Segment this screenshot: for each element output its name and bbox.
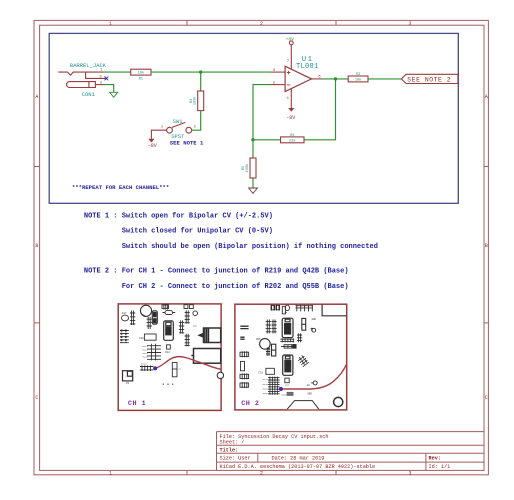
- svg-text:A: A: [35, 94, 38, 100]
- switch SW1 SPST: [167, 118, 192, 140]
- svg-text:2: 2: [260, 21, 263, 27]
- left column marks: [240, 326, 248, 328]
- pin 6 of U1: [312, 78, 323, 80]
- wire R2 to switch: [192, 111, 201, 131]
- svg-text:Q56: Q56: [256, 338, 261, 341]
- junction node A: [199, 70, 202, 73]
- pad cluster left: [122, 330, 126, 344]
- pin 2 of U1: [271, 84, 285, 86]
- svg-text:A: A: [485, 94, 488, 100]
- ladder below it: [297, 333, 302, 342]
- svg-text:R2: R2: [190, 99, 194, 103]
- resistor ladder: [130, 311, 135, 326]
- sheet box: [49, 33, 458, 203]
- svg-text:B: B: [485, 243, 488, 249]
- trace CH1: [155, 357, 221, 370]
- ground GND at CON1: [110, 92, 118, 97]
- svg-text:GND: GND: [193, 325, 198, 328]
- power -8V at U1 pin4: [286, 108, 295, 121]
- svg-text:R115: R115: [142, 355, 148, 358]
- svg-text:K17: K17: [122, 312, 127, 315]
- svg-text:U10: U10: [166, 331, 172, 334]
- svg-text:B: B: [35, 243, 38, 249]
- PCB photo CH2 board outline: [235, 304, 347, 410]
- svg-text:Title:: Title:: [220, 448, 239, 454]
- svg-text:SW1: SW1: [173, 118, 184, 125]
- svg-text:Id: 1/1: Id: 1/1: [429, 464, 451, 470]
- SCHEMATIC: [58, 36, 458, 193]
- wire R4 to node C: [253, 139, 281, 141]
- IC U15: [282, 318, 293, 337]
- svg-text:CH 2: CH 2: [241, 400, 259, 408]
- svg-text:R5: R5: [242, 166, 246, 170]
- oval ring: [285, 305, 289, 311]
- junction dot CH1: [153, 366, 157, 370]
- svg-text:CON1: CON1: [82, 91, 96, 98]
- comb ladder: [295, 305, 313, 311]
- capacitor C26: [144, 334, 156, 340]
- power jack footprint: [199, 328, 221, 343]
- svg-text:R1: R1: [139, 78, 143, 82]
- svg-text:-8V: -8V: [286, 115, 295, 121]
- pin 3 of U1: [271, 71, 285, 73]
- svg-text:-8V: -8V: [305, 384, 310, 387]
- svg-text:+8V: +8V: [286, 36, 295, 42]
- svg-text:10k: 10k: [138, 71, 144, 76]
- svg-text:Date: 28 mar 2019: Date: 28 mar 2019: [272, 455, 325, 461]
- svg-text:C: C: [485, 395, 488, 401]
- wire node C down to R5: [252, 140, 254, 158]
- junction node B at output: [334, 77, 337, 80]
- svg-text:Rev:: Rev:: [429, 455, 441, 461]
- svg-text:P2: P2: [126, 382, 130, 385]
- trace CH2: [281, 363, 347, 389]
- svg-text:R147: R147: [263, 378, 269, 381]
- wire U1 output to R3: [322, 78, 348, 80]
- transistor Q: [260, 339, 271, 350]
- svg-text:NOTE 1 : Switch open for Bipol: NOTE 1 : Switch open for Bipolar CV (+/-…: [84, 213, 273, 221]
- svg-text:3: 3: [408, 21, 411, 27]
- bottom trapezoid: [287, 401, 319, 410]
- resistor R1: [131, 69, 151, 81]
- pad circle D: [312, 328, 316, 332]
- electrolytic cap: [152, 311, 157, 324]
- small pads top: [184, 305, 188, 309]
- wire CON1 pin2 to ground: [95, 84, 103, 86]
- svg-text:1: 1: [109, 470, 112, 476]
- 2-cell resistor below Q: [272, 344, 276, 356]
- PCB CH2: [235, 304, 347, 410]
- svg-text:NOTE 2 : For CH 1 - Connect to: NOTE 2 : For CH 1 - Connect to junction …: [84, 267, 349, 275]
- capacitor K17: [122, 315, 129, 321]
- pad circle on edge: [217, 372, 223, 378]
- wire output down to feedback: [304, 79, 336, 140]
- svg-text:KiCad E.D.A. eeschema (2013-0: KiCad E.D.A. eeschema (2013-07-07 BZR 40…: [220, 464, 376, 470]
- svg-text:SEE NOTE 2: SEE NOTE 2: [407, 76, 451, 83]
- wire node C to U1 pin2: [253, 85, 271, 140]
- top row parts: [271, 305, 280, 311]
- wire R5 to ground: [252, 178, 254, 188]
- svg-text:C26: C26: [139, 337, 144, 340]
- svg-text:2: 2: [260, 470, 263, 476]
- wire node A down to R2: [200, 72, 202, 91]
- svg-text:R206: R206: [282, 393, 288, 396]
- svg-text:For CH 2 - Connect to junction: For CH 2 - Connect to junction of R202 a…: [122, 283, 349, 291]
- vertical ladders left of U15: [266, 320, 271, 334]
- wire CON1 pin1 to R1: [103, 71, 131, 73]
- svg-text:C: C: [35, 395, 38, 401]
- resistor ladder: [147, 317, 152, 329]
- small ladder top: [162, 304, 169, 309]
- ladder under trace: [286, 392, 293, 396]
- op-amp U1 TL081: [285, 56, 318, 92]
- resistor ladders right: [185, 310, 190, 323]
- svg-text:R113: R113: [141, 363, 147, 366]
- svg-text:U16: U16: [285, 366, 291, 369]
- capacitor C31: [266, 368, 275, 374]
- dots: [163, 384, 164, 385]
- power -8V at SW1: [148, 139, 157, 149]
- svg-text:R204: R204: [263, 387, 269, 390]
- svg-text:***REPEAT FOR EACH CHANNEL***: ***REPEAT FOR EACH CHANNEL***: [72, 184, 169, 191]
- diode D12: [167, 345, 171, 349]
- axial resistor: [163, 311, 176, 315]
- svg-text:C31: C31: [258, 371, 263, 374]
- svg-text:R202: R202: [263, 392, 269, 395]
- power +8V at U1 pin7: [286, 36, 295, 45]
- svg-text:R4: R4: [290, 134, 294, 138]
- svg-text:CH 1: CH 1: [128, 400, 146, 408]
- resistor R113: [140, 365, 154, 371]
- IC U10: [164, 321, 174, 340]
- resistor R3: [348, 73, 368, 82]
- svg-text:GND: GND: [308, 393, 313, 396]
- connector P2: [123, 371, 133, 381]
- NOTES: [72, 184, 378, 291]
- wire R3 to label: [368, 78, 401, 80]
- TITLE BLOCK: [217, 432, 485, 471]
- transistor can: [140, 305, 151, 316]
- global label SEE NOTE 2: [401, 74, 458, 83]
- connector CON1 barrel jack: [58, 62, 107, 98]
- svg-text:10k: 10k: [355, 77, 361, 82]
- PCB photo CH1 board outline: [118, 304, 221, 411]
- pad circle: [193, 311, 198, 316]
- no-connect X on pin 3: [105, 77, 109, 81]
- relay footprint: [191, 349, 220, 364]
- resistor cluster: [147, 344, 161, 361]
- ground GND below R5: [249, 188, 258, 193]
- ladder under U15: [280, 338, 294, 342]
- svg-text:1: 1: [109, 21, 112, 27]
- IC U16: [283, 355, 293, 375]
- diagonal ladders right of U16: [298, 355, 306, 362]
- wire SW1 pin1 to -8V: [151, 130, 166, 139]
- svg-text:-8V: -8V: [148, 143, 157, 149]
- resistor R2: [190, 91, 204, 111]
- mount hole: [334, 397, 343, 406]
- resistor right of U15: [302, 318, 306, 330]
- svg-text:W20: W20: [285, 384, 290, 387]
- via -8V: [313, 381, 317, 385]
- svg-text:TL081: TL081: [296, 63, 319, 71]
- svg-text:Size: User: Size: User: [220, 455, 251, 461]
- junction node C: [251, 138, 254, 141]
- svg-text:GND: GND: [312, 318, 317, 321]
- diode under U15: [281, 345, 296, 349]
- svg-text:Sheet: /: Sheet: /: [220, 440, 245, 446]
- svg-text:22k: 22k: [289, 138, 295, 143]
- junction dot CH2: [279, 387, 283, 391]
- svg-text:Switch closed for Unipolar CV: Switch closed for Unipolar CV (0-5V): [122, 228, 273, 236]
- jack cutout: [322, 305, 346, 316]
- svg-text:SEE NOTE 1: SEE NOTE 1: [170, 140, 204, 147]
- svg-text:R3: R3: [356, 73, 360, 77]
- svg-text:R146: R146: [263, 383, 269, 386]
- bottom-left resistor stack: [268, 377, 280, 381]
- svg-text:Switch should be open (Bipolar: Switch should be open (Bipolar position)…: [122, 243, 378, 251]
- svg-text:3: 3: [408, 470, 411, 476]
- svg-text:U15: U15: [284, 329, 290, 332]
- svg-text:D12: D12: [165, 351, 170, 354]
- resistor K2: [172, 363, 177, 377]
- resistor R5: [242, 158, 256, 178]
- wire R1 to op-amp pin3: [151, 71, 271, 73]
- small rect below U16: [285, 378, 289, 383]
- PCB CH1: [118, 304, 223, 411]
- resistor R4 feedback: [281, 134, 304, 143]
- pin 4 of U1: [290, 89, 292, 109]
- pin 7 of U1: [290, 45, 292, 70]
- dark ladder left of it: [266, 348, 270, 357]
